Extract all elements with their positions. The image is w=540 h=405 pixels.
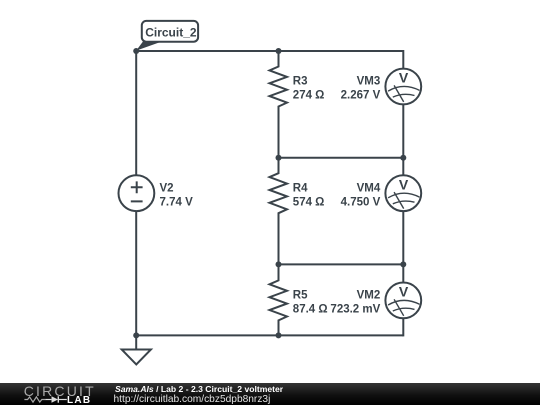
node junction dot top-left (136,51) bbox=[133, 48, 139, 54]
node junction dot bottom-left/ground (136,335) bbox=[133, 332, 139, 338]
svg-text:V: V bbox=[399, 284, 409, 300]
voltage source V2 label: V2 7.74 V bbox=[160, 182, 194, 208]
node junction dot rail1/R3 (278,51) bbox=[276, 48, 282, 54]
footer title line bbox=[115, 384, 283, 394]
footer url line bbox=[114, 394, 271, 405]
wire right column: VM3 bottom to rail 2 bbox=[402, 104, 404, 157]
svg-text:2.267 V: 2.267 V bbox=[341, 90, 381, 102]
node junction dot rail3/R column (278,264) bbox=[276, 261, 282, 267]
node junction dot rail2/R column (278,158) bbox=[276, 155, 282, 161]
voltmeter VM2 label: VM2 723.2 mV bbox=[330, 290, 380, 316]
wire left column: top rail down to V2 top terminal bbox=[135, 50, 137, 175]
voltmeter VM4 bbox=[385, 175, 421, 211]
wire rail 3 from R4/R5 node to VM node bbox=[279, 263, 404, 265]
net label Circuit_2 bubble tail bbox=[136, 41, 164, 51]
svg-text:VM3: VM3 bbox=[357, 76, 381, 88]
wire right column: VM4 bottom to rail 3 bbox=[402, 211, 404, 264]
node junction dot rail3/VM column (403,264) bbox=[400, 261, 406, 267]
resistor R3 label: R3 274 Ω bbox=[293, 76, 325, 102]
svg-text:R3: R3 bbox=[293, 76, 308, 88]
footer bar bbox=[0, 383, 540, 405]
resistor R4 label: R4 574 Ω bbox=[293, 182, 325, 208]
voltmeter VM2 bbox=[385, 283, 421, 319]
svg-text:V: V bbox=[399, 70, 409, 86]
wire rail 2 from R3/R4 node to VM node bbox=[279, 157, 404, 159]
svg-text:723.2 mV: 723.2 mV bbox=[330, 304, 380, 316]
voltmeter VM4 label: VM4 4.750 V bbox=[341, 182, 381, 208]
wire right column: rail3 to VM2 top bbox=[402, 264, 404, 282]
wire right column: VM2 bottom to bottom-right corner bbox=[402, 318, 404, 336]
wire bottom rail from ground node to bottom-right corner bbox=[136, 334, 403, 336]
resistor R5 label: R5 87.4 Ω bbox=[293, 290, 328, 316]
svg-text:VM4: VM4 bbox=[357, 182, 381, 194]
svg-text:R5: R5 bbox=[293, 290, 308, 302]
node junction dot bottom rail/R5 (278,335) bbox=[276, 332, 282, 338]
voltage source V2 bbox=[118, 175, 154, 211]
svg-text:87.4 Ω: 87.4 Ω bbox=[293, 304, 328, 316]
node junction dot rail2/VM column (403,158) bbox=[400, 155, 406, 161]
resistor R5 bbox=[270, 264, 288, 335]
wire left column: V2 bottom terminal down to bottom rail bbox=[135, 211, 137, 336]
svg-text:VM2: VM2 bbox=[357, 290, 381, 302]
wire right column: rail2 to VM4 top bbox=[402, 158, 404, 176]
ground bbox=[122, 335, 151, 364]
svg-text:V: V bbox=[399, 176, 409, 192]
wire right column: top-right corner down to VM3 top bbox=[402, 50, 404, 69]
svg-text:R4: R4 bbox=[293, 182, 308, 194]
svg-text:Circuit_2: Circuit_2 bbox=[145, 25, 197, 39]
net label Circuit_2 bubble box bbox=[142, 21, 198, 42]
resistor R3 bbox=[270, 51, 288, 158]
footer CircuitLab logo bbox=[0, 380, 100, 405]
svg-text:LAB: LAB bbox=[67, 395, 91, 405]
svg-text:V2: V2 bbox=[160, 182, 174, 194]
voltmeter VM3 label: VM3 2.267 V bbox=[341, 76, 381, 102]
wire top rail from node at (136,51) to top-right corner bbox=[136, 50, 403, 52]
svg-text:274 Ω: 274 Ω bbox=[293, 90, 325, 102]
svg-text:4.750 V: 4.750 V bbox=[341, 196, 381, 208]
svg-text:574 Ω: 574 Ω bbox=[293, 196, 325, 208]
resistor R4 bbox=[270, 158, 288, 265]
voltmeter VM3 bbox=[385, 69, 421, 105]
svg-text:7.74 V: 7.74 V bbox=[160, 196, 194, 208]
